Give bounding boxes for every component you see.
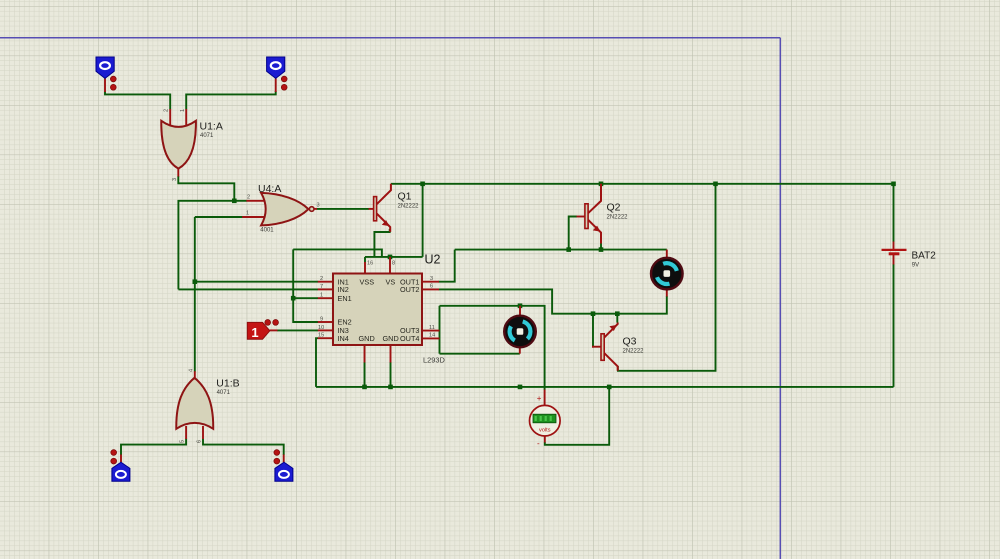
wire Q2 collector rail line bbox=[455, 249, 667, 251]
wire NOR output to Q1 base bbox=[317, 208, 370, 210]
svg-text:15: 15 bbox=[318, 333, 324, 339]
junction GND pin left node bbox=[362, 385, 367, 390]
wire top-left toggle to U1:A input 1 bbox=[105, 91, 170, 109]
battery BAT2 bbox=[882, 250, 907, 254]
pin stub U4:A pin2 bbox=[246, 200, 267, 202]
pin stub U1:B input left bbox=[185, 426, 187, 439]
svg-text:-: - bbox=[537, 439, 540, 448]
svg-text:2: 2 bbox=[164, 109, 170, 112]
wire Q2 base riser bbox=[569, 217, 577, 250]
svg-text:1: 1 bbox=[320, 293, 323, 299]
svg-text:14: 14 bbox=[429, 333, 435, 339]
svg-text:16: 16 bbox=[367, 261, 373, 267]
junction Q2 base node bbox=[566, 247, 571, 252]
wire EN riser bbox=[293, 249, 318, 322]
svg-text:10: 10 bbox=[318, 325, 324, 331]
wire U2 supply riser bbox=[422, 184, 424, 257]
pin stub U1:A input1 bbox=[169, 109, 171, 127]
transistor Q1 emitter arrow bbox=[382, 220, 390, 226]
svg-text:IN2: IN2 bbox=[338, 285, 349, 294]
svg-text:2N2222: 2N2222 bbox=[607, 215, 629, 221]
svg-text:9V: 9V bbox=[912, 263, 919, 269]
svg-text:9: 9 bbox=[320, 317, 323, 323]
pin stub battery top bbox=[893, 242, 895, 250]
pin stub voltmeter minus bbox=[544, 436, 546, 443]
svg-text:6: 6 bbox=[430, 284, 433, 290]
wire battery top bbox=[893, 184, 895, 242]
pin stub IC IN1 bbox=[318, 281, 333, 283]
svg-text:OUT2: OUT2 bbox=[400, 285, 419, 294]
svg-text:5: 5 bbox=[180, 440, 186, 443]
svg-text:7: 7 bbox=[320, 284, 323, 290]
svg-text:1: 1 bbox=[246, 211, 249, 217]
transistor Q2 base stub bbox=[577, 216, 585, 218]
svg-text:2: 2 bbox=[320, 276, 323, 282]
svg-text:IN4: IN4 bbox=[338, 334, 349, 343]
OR gate U1:A bbox=[161, 121, 196, 169]
pin stub IC EN2 bbox=[318, 321, 333, 323]
wire GND pin right bbox=[390, 362, 392, 387]
logic state 0 bottom-right bbox=[275, 462, 293, 481]
pin stub U1:B input right bbox=[202, 426, 204, 439]
logic state 0 top-left bbox=[96, 57, 114, 78]
svg-text:OUT4: OUT4 bbox=[400, 334, 419, 343]
svg-text:GND: GND bbox=[383, 334, 399, 343]
logic state 0 top-left probe dots bbox=[110, 76, 116, 90]
pin stub motor2 bottom bbox=[666, 290, 668, 297]
pin stub top-right toggle bbox=[275, 78, 277, 92]
NOR gate U4:A bbox=[261, 193, 308, 226]
pin stub IC GND left bbox=[364, 345, 366, 363]
wire Q3 emitter riser bbox=[616, 314, 618, 323]
svg-text:2N2222: 2N2222 bbox=[398, 204, 420, 210]
logic state 0 bottom-right probe dots bbox=[274, 450, 280, 464]
logic state 1 probe dots bbox=[265, 320, 279, 326]
junction voltmeter minus node bbox=[607, 385, 612, 390]
wire motor1 bottom line bbox=[440, 353, 520, 355]
svg-text:VS: VS bbox=[386, 277, 396, 286]
pin stub IC OUT3 bbox=[422, 330, 440, 332]
wire OUT1 to rail riser bbox=[439, 250, 455, 282]
pin stub IC OUT2 bbox=[422, 288, 439, 290]
junction ground rail motor node bbox=[518, 385, 523, 390]
svg-text:1: 1 bbox=[251, 325, 258, 340]
junction IN1 node bbox=[193, 279, 198, 284]
wire U1:B inputs line left bbox=[121, 439, 186, 456]
pin stub motor1 bottom bbox=[519, 348, 521, 354]
OR gate U1:B bbox=[176, 378, 213, 429]
wire Q2 emitter drop bbox=[600, 243, 602, 250]
junction rail U2 riser bbox=[420, 182, 425, 187]
svg-text:4: 4 bbox=[188, 369, 194, 372]
pin stub U4:A output bbox=[314, 208, 317, 210]
wire Q1 emitter path bbox=[374, 229, 389, 257]
wire U4:A pin2 line bbox=[178, 201, 246, 290]
pin stub IC VS bbox=[389, 257, 391, 274]
wire Q3 base riser bbox=[592, 314, 593, 347]
wire EN supply link bbox=[293, 249, 382, 257]
junction rail battery corner bbox=[891, 182, 896, 187]
pin stub IC IN3 bbox=[318, 329, 333, 331]
logic state 0 top-right probe dots bbox=[281, 76, 287, 90]
motor 2 bbox=[651, 258, 683, 290]
wire top power rail bbox=[391, 183, 894, 185]
wire VSS pin16 drop bbox=[364, 257, 366, 263]
svg-text:U1:B: U1:B bbox=[216, 378, 239, 390]
wire Q3 collector to rail riser bbox=[618, 184, 716, 371]
IC U2 L293D body bbox=[333, 274, 422, 346]
svg-text:3: 3 bbox=[430, 276, 433, 282]
junction Q3 emitter node bbox=[615, 311, 620, 316]
svg-text:2: 2 bbox=[247, 195, 250, 201]
junction U1:A out to NOR pin2 bbox=[232, 199, 237, 204]
junction EN1 node bbox=[291, 296, 296, 301]
wire top-right toggle to U1:A input 2 bbox=[186, 91, 276, 109]
pin stub IC OUT1 bbox=[422, 281, 439, 283]
wire U1:B output riser to node bbox=[194, 217, 196, 372]
svg-text:1: 1 bbox=[180, 109, 186, 112]
pin stub IC GND right bbox=[390, 345, 392, 363]
transistor Q3 emitter arrow bbox=[609, 325, 617, 331]
logic state 1 bbox=[247, 322, 269, 340]
pin stub IC IN4 bbox=[318, 337, 333, 339]
svg-text:U4:A: U4:A bbox=[258, 183, 281, 195]
wire IN4 bbox=[316, 338, 318, 387]
svg-text:L293D: L293D bbox=[423, 356, 445, 365]
junction rail Q2 collector bbox=[599, 182, 604, 187]
pin stub bottom-left toggle bbox=[120, 455, 122, 463]
pin stub voltmeter plus bbox=[544, 390, 546, 406]
pin stub IC VSS bbox=[364, 262, 366, 274]
wire U4:A pin1 line bbox=[195, 216, 243, 218]
wire GND pin left bbox=[364, 362, 366, 387]
pin stub U1:A output bbox=[177, 168, 179, 176]
wire battery bottom to ground rail bbox=[893, 264, 895, 387]
junction rail Q3 riser bbox=[713, 182, 718, 187]
svg-text:GND: GND bbox=[359, 334, 375, 343]
pin stub IC EN1 bbox=[318, 297, 333, 299]
junction motor1 top node bbox=[518, 304, 523, 309]
wire EN1 bbox=[293, 297, 318, 299]
junction GND pin right node bbox=[388, 385, 393, 390]
svg-text:11: 11 bbox=[429, 325, 435, 331]
logic state 0 bottom-left probe dots bbox=[111, 450, 117, 464]
pin stub state1 toggle bbox=[270, 329, 278, 331]
pin stub top-left toggle bbox=[104, 78, 106, 92]
pin stub U4:A pin1 bbox=[242, 216, 267, 218]
voltmeter bbox=[530, 405, 561, 436]
svg-text:Q3: Q3 bbox=[623, 336, 637, 348]
pin stub IC IN2 bbox=[318, 288, 333, 290]
wire OUT3 OUT4 riser bbox=[439, 306, 441, 354]
junction Q2 emitter node bbox=[599, 247, 604, 252]
svg-text:8: 8 bbox=[392, 261, 395, 267]
pin stub bottom-right toggle bbox=[283, 455, 285, 463]
svg-text:volts: volts bbox=[539, 428, 551, 434]
logic state 0 bottom-left bbox=[112, 462, 130, 481]
wire IN1 bbox=[195, 281, 318, 283]
wire VSS VS supply line bbox=[365, 256, 423, 258]
wire motor1 top line bbox=[440, 306, 545, 390]
transistor Q3 base stub bbox=[592, 346, 601, 348]
junction VS pin node bbox=[388, 255, 393, 260]
transistor Q2 emitter arrow bbox=[593, 226, 601, 232]
svg-text:4001: 4001 bbox=[260, 228, 274, 234]
pin stub motor2 top bbox=[666, 250, 668, 258]
svg-text:3: 3 bbox=[172, 178, 178, 181]
svg-text:BAT2: BAT2 bbox=[912, 251, 937, 262]
pin stub Q1 base bbox=[369, 208, 374, 210]
NOR gate U4:A output bubble bbox=[309, 207, 314, 212]
svg-text:VSS: VSS bbox=[360, 277, 375, 286]
svg-text:Q1: Q1 bbox=[398, 191, 412, 203]
svg-text:4071: 4071 bbox=[217, 390, 231, 396]
transistor Q3 bbox=[601, 323, 618, 371]
pin stub IC OUT4 bbox=[422, 337, 440, 339]
motor 1 bbox=[504, 316, 536, 348]
pin stub motor1 top bbox=[519, 306, 521, 315]
wire IN3 from state 1 bbox=[277, 329, 318, 331]
wire IN2 bbox=[178, 288, 318, 290]
transistor Q1 bbox=[374, 184, 391, 232]
svg-text:4071: 4071 bbox=[200, 133, 214, 139]
pin stub U1:B output bbox=[194, 371, 196, 378]
svg-text:EN1: EN1 bbox=[338, 294, 352, 303]
logic state 0 top-right bbox=[267, 57, 285, 78]
svg-text:2N2222: 2N2222 bbox=[623, 349, 645, 355]
svg-text:U1:A: U1:A bbox=[200, 121, 223, 133]
svg-text:Q2: Q2 bbox=[607, 202, 621, 214]
pin stub U1:A input2 bbox=[185, 109, 187, 127]
wire OUT2 to motor2 bottom bbox=[439, 289, 667, 313]
wire U1:B inputs line right bbox=[203, 439, 284, 456]
wire ground rail bbox=[316, 386, 894, 388]
svg-text:6: 6 bbox=[197, 440, 203, 443]
pin stub battery bottom bbox=[893, 254, 895, 265]
wire voltmeter minus loop bbox=[545, 387, 609, 445]
svg-text:+: + bbox=[537, 394, 542, 403]
transistor Q2 bbox=[585, 184, 601, 244]
wire U1:A output elbow bbox=[178, 176, 234, 201]
svg-text:U2: U2 bbox=[425, 253, 441, 267]
junction Q3 base node bbox=[591, 311, 596, 316]
svg-text:3: 3 bbox=[317, 203, 320, 209]
